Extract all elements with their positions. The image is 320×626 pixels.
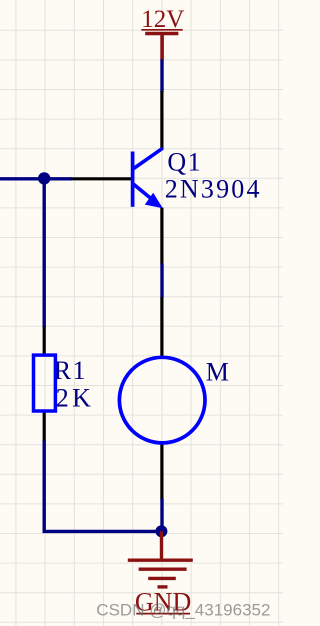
GND underline <box>136 613 190 615</box>
transistor Q1 collector stroke <box>134 148 163 168</box>
wire: blue wire between emitter pin and motor pin <box>160 264 163 298</box>
svg-text:R1: R1 <box>54 356 87 385</box>
svg-text:2K: 2K <box>56 384 94 413</box>
wire: blue L wire from resistor bottom to bottom junction <box>44 441 161 532</box>
wire: emitter pin (black) <box>160 208 163 265</box>
wire: resistor top pin (black) <box>43 327 46 355</box>
power port 12V stem <box>160 33 164 60</box>
junction dot at ground node <box>155 525 167 537</box>
wire: base wire blue from left edge <box>0 177 72 180</box>
wire: motor top pin (black) <box>160 297 163 356</box>
svg-text:Q1: Q1 <box>167 148 202 177</box>
transistor Q1 emitter stroke <box>134 184 155 201</box>
wire: blue wire motor to bottom junction <box>160 499 163 532</box>
ground bar 2 <box>139 568 187 571</box>
svg-text:12V: 12V <box>141 6 184 33</box>
power port 12V bar <box>145 32 178 36</box>
ground stem <box>160 531 163 559</box>
wire: blue vertical wire from junction down to resistor pin <box>43 177 46 327</box>
ground bar 3 <box>148 577 176 580</box>
wire: base pin (black) <box>72 177 132 180</box>
svg-text:M: M <box>206 358 229 387</box>
wire: resistor bottom pin (black) <box>43 412 46 441</box>
ground bar 4 <box>158 585 168 588</box>
wire: motor bottom pin (black) <box>160 444 163 500</box>
svg-text:2N3904: 2N3904 <box>165 174 262 203</box>
resistor R1 body <box>34 355 56 411</box>
12V underline <box>141 29 182 31</box>
transistor Q1 base bar <box>131 152 135 207</box>
junction dot at base node <box>38 172 50 184</box>
motor M circle <box>119 357 205 443</box>
transistor Q1 emitter arrowhead <box>145 193 163 208</box>
wire: blue wire from 12V power stem down to collector pin <box>160 59 163 93</box>
ground bar 1 <box>128 559 193 562</box>
svg-text:CSDN @qq_43196352: CSDN @qq_43196352 <box>96 600 270 619</box>
wire: collector pin (black) <box>160 91 163 150</box>
